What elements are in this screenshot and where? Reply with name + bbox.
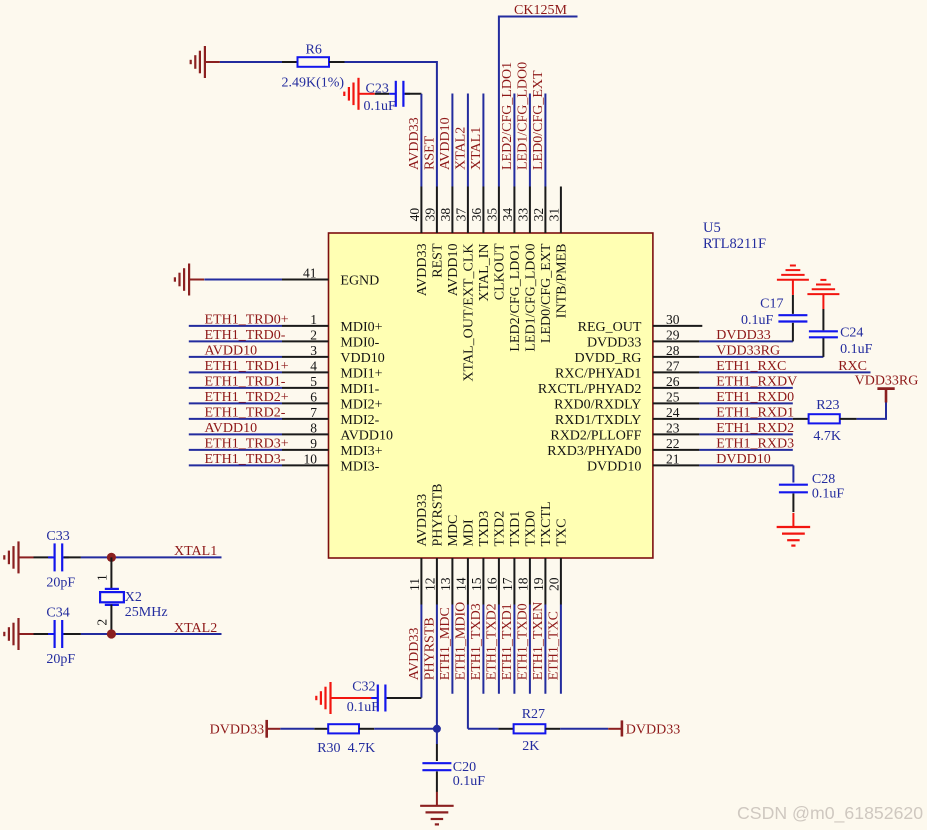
- net label AVDD33: [407, 628, 422, 681]
- pin 31 number: [546, 208, 561, 222]
- svg-text:TXD3: TXD3: [477, 511, 492, 547]
- pin 14 lead (bottom): [467, 558, 469, 605]
- X2 designator: [125, 590, 142, 605]
- C23 designator: [366, 82, 389, 97]
- R6 value 2.49K(1%): [282, 75, 345, 90]
- net label AVDD33: [407, 117, 422, 170]
- svg-text:ETH1_TRD2-: ETH1_TRD2-: [205, 406, 286, 421]
- svg-text:C33: C33: [46, 529, 69, 544]
- net label ETH1_TRD0-: [205, 328, 286, 343]
- R6 right lead: [329, 61, 345, 63]
- pin 18 number: [515, 577, 530, 591]
- svg-text:ETH1_RXDV: ETH1_RXDV: [716, 375, 797, 390]
- wire net ETH1_RXD3: [699, 449, 792, 451]
- ground (earth) at R6: [191, 46, 220, 78]
- pin 28 lead (right): [653, 356, 700, 358]
- C34 right lead: [64, 633, 81, 635]
- svg-text:ETH1_TXD0: ETH1_TXD0: [516, 603, 531, 680]
- net label AVDD10: [205, 421, 258, 436]
- R23 left lead: [793, 418, 809, 420]
- svg-text:28: 28: [666, 343, 680, 358]
- C34 designator: [46, 606, 69, 621]
- svg-text:21: 21: [666, 452, 680, 467]
- resistor R6: [298, 57, 330, 67]
- ground (earth) at EGND: [175, 264, 204, 296]
- svg-text:AVDD10: AVDD10: [205, 421, 258, 436]
- svg-text:AVDD33: AVDD33: [407, 628, 422, 681]
- wire junction down to C20: [436, 729, 438, 744]
- wire net ETH1_TRD2-: [189, 418, 282, 420]
- svg-text:AVDD10: AVDD10: [446, 244, 461, 297]
- svg-text:X2: X2: [125, 590, 142, 605]
- wire XTAL2 net: [81, 633, 222, 635]
- pin 21 lead (right): [653, 464, 700, 466]
- X2 value 25MHz: [125, 605, 168, 620]
- svg-text:AVDD10: AVDD10: [438, 117, 453, 170]
- net label DVDD10: [716, 452, 770, 467]
- svg-text:LED2/CFG_LDO1: LED2/CFG_LDO1: [508, 244, 523, 352]
- svg-text:LED1/CFG_LDO0: LED1/CFG_LDO0: [516, 62, 531, 170]
- pin 40 lead (top): [420, 187, 422, 234]
- wire DVDD33 to R30: [280, 728, 314, 730]
- svg-text:XTAL2: XTAL2: [454, 127, 469, 170]
- pin 35 number: [484, 208, 499, 222]
- pin 34 name LED2/CFG_LDO1: [508, 244, 523, 352]
- wire net ETH1_TRD3-: [189, 464, 282, 466]
- wire (net stub): [513, 94, 515, 187]
- pin 3 name VDD10: [340, 351, 384, 366]
- svg-text:ETH1_MDIO: ETH1_MDIO: [454, 602, 469, 681]
- svg-text:11: 11: [407, 578, 422, 591]
- net label ETH1_TRD2-: [205, 406, 286, 421]
- svg-text:14: 14: [453, 577, 468, 591]
- svg-text:DVDD33: DVDD33: [626, 722, 680, 737]
- svg-text:MDI3+: MDI3+: [340, 444, 382, 459]
- X2 pin 1 number: [94, 574, 109, 581]
- svg-text:XTAL2: XTAL2: [174, 621, 217, 636]
- svg-text:LED0/CFG_EXT: LED0/CFG_EXT: [531, 70, 546, 170]
- pin 20 lead (bottom): [560, 558, 562, 605]
- wire net ETH1_TRD1+: [189, 371, 282, 373]
- svg-text:DVDD10: DVDD10: [587, 459, 641, 474]
- wire net DVDD10: [699, 464, 793, 466]
- U5 value RTL8211F: [703, 236, 766, 252]
- C20 bottom lead: [436, 771, 438, 792]
- svg-text:TXD0: TXD0: [524, 511, 539, 547]
- pin 18 name TXD0: [524, 511, 539, 547]
- C32 designator: [352, 680, 375, 695]
- pin 1 lead (left): [282, 325, 329, 327]
- net label ETH1_TXD3: [469, 603, 484, 680]
- svg-text:DVDD10: DVDD10: [716, 452, 770, 467]
- watermark CSDN: [737, 803, 923, 824]
- pin 38 name AVDD10: [446, 244, 461, 297]
- wire net ETH1_TXD2: [498, 605, 500, 694]
- svg-text:39: 39: [422, 208, 437, 222]
- svg-text:33: 33: [515, 208, 530, 222]
- pin 11 name AVDD33: [415, 494, 430, 547]
- pin 19 name TXCTL: [539, 501, 554, 546]
- net label XTAL2: [174, 621, 217, 636]
- wire net ETH1_TXD1: [513, 605, 515, 694]
- net label LED1/CFG_LDO0: [516, 62, 531, 170]
- svg-text:DVDD33: DVDD33: [587, 335, 641, 350]
- pin 20 name TXC: [555, 519, 570, 547]
- pin 40 name AVDD33: [415, 244, 430, 297]
- svg-text:37: 37: [453, 208, 468, 222]
- pin 7 number: [310, 405, 317, 420]
- pin 31 name INTB/PMEB: [555, 244, 570, 319]
- C28 bottom lead: [792, 494, 794, 513]
- wire ground to C23: [374, 93, 390, 95]
- svg-text:RXCTL/PHYAD2: RXCTL/PHYAD2: [538, 382, 641, 397]
- svg-text:ETH1_MDC: ETH1_MDC: [438, 607, 453, 680]
- svg-text:17: 17: [500, 577, 515, 591]
- pin 7 lead (left): [282, 418, 329, 420]
- svg-text:ETH1_TXD3: ETH1_TXD3: [469, 603, 484, 680]
- pin 23 lead (right): [653, 433, 700, 435]
- svg-text:EGND: EGND: [340, 273, 379, 288]
- net label AVDD10: [438, 117, 453, 170]
- svg-text:8: 8: [310, 421, 317, 436]
- svg-text:CLKOUT: CLKOUT: [493, 243, 508, 300]
- wire net ETH1_TXC: [560, 605, 562, 694]
- svg-text:3: 3: [310, 343, 317, 358]
- wire net ETH1_RXDV: [699, 387, 792, 389]
- pin 37 number: [453, 208, 468, 222]
- C23 value 0.1uF: [364, 99, 397, 114]
- pin 8 name AVDD10: [340, 428, 393, 443]
- svg-text:9: 9: [310, 436, 317, 451]
- R30 left lead: [314, 728, 328, 730]
- power label VDD33RG: [855, 374, 919, 389]
- pin 28 number: [666, 343, 680, 358]
- power label DVDD33 left: [210, 722, 264, 737]
- net label ETH1_TRD1+: [205, 359, 289, 374]
- pin 17 lead (bottom): [513, 558, 515, 605]
- svg-text:38: 38: [438, 208, 453, 222]
- R6 left lead: [282, 61, 298, 63]
- svg-text:0.1uF: 0.1uF: [364, 99, 397, 114]
- pin 23 name RXD2/PLLOFF: [550, 428, 641, 443]
- capacitor C34: [48, 620, 69, 648]
- svg-text:0.1uF: 0.1uF: [741, 313, 774, 328]
- X2 pin 1 lead: [110, 557, 112, 589]
- net label ETH1_TRD1-: [205, 375, 286, 390]
- svg-text:PHYRSTB: PHYRSTB: [431, 483, 446, 546]
- pin 38 number: [438, 208, 453, 222]
- wire R6 to pin 39: [345, 62, 437, 187]
- net label XTAL1: [469, 127, 484, 170]
- pin 8 lead (left): [282, 433, 329, 435]
- pin 39 name REST: [431, 243, 446, 278]
- pin 2 number: [310, 328, 317, 343]
- svg-text:XTAL1: XTAL1: [174, 544, 217, 559]
- svg-text:ETH1_TRD3-: ETH1_TRD3-: [205, 452, 286, 467]
- pin 10 lead (left): [282, 464, 329, 466]
- C17 top lead: [792, 295, 794, 314]
- svg-text:0.1uF: 0.1uF: [347, 700, 380, 715]
- svg-text:31: 31: [546, 208, 561, 222]
- junction XTAL2: [107, 629, 116, 638]
- net label PHYRSTB: [423, 617, 438, 680]
- C33 left lead: [34, 556, 53, 558]
- C32 right lead: [387, 697, 421, 699]
- pin 13 name MDC: [446, 515, 461, 547]
- junction XTAL1: [107, 553, 116, 562]
- svg-text:2: 2: [94, 619, 109, 626]
- pin 27 name RXC/PHYAD1: [555, 366, 641, 381]
- wire net AVDD10: [189, 356, 282, 358]
- pin 32 number: [531, 208, 546, 222]
- pin 31 lead (top): [560, 187, 562, 234]
- pin 34 number: [500, 208, 515, 222]
- pin 37 name XTAL_OUT/EXT_CLK: [462, 244, 477, 382]
- pin 24 lead (right): [653, 418, 700, 420]
- resistor R27: [514, 724, 546, 733]
- svg-text:DVDD33: DVDD33: [210, 722, 264, 737]
- pin 27 lead (right): [653, 371, 700, 373]
- capacitor C23: [389, 81, 410, 107]
- svg-text:7: 7: [310, 405, 317, 420]
- svg-text:15: 15: [469, 577, 484, 591]
- wire net ETH1_TRD0+: [189, 325, 282, 327]
- net label ETH1_TXEN: [531, 602, 546, 681]
- svg-text:19: 19: [531, 577, 546, 591]
- pin 16 number: [484, 577, 499, 591]
- wire XTAL1 net: [81, 556, 222, 558]
- pin 24 number: [666, 405, 680, 420]
- wire net ETH1_TXD0: [529, 605, 531, 694]
- R30 value 4.7K: [348, 741, 376, 756]
- pin 5 number: [310, 374, 317, 389]
- net label XTAL1: [174, 544, 217, 559]
- svg-text:DVDD_RG: DVDD_RG: [575, 351, 642, 366]
- svg-text:40: 40: [407, 208, 422, 222]
- net label ETH1_TRD2+: [205, 390, 289, 405]
- C17 designator: [760, 296, 783, 311]
- wire R30 to junction: [374, 728, 437, 730]
- pin 33 lead (top): [529, 187, 531, 234]
- pin 32 lead (top): [544, 187, 546, 234]
- pin 1 name MDI0+: [340, 320, 382, 335]
- svg-text:PHYRSTB: PHYRSTB: [423, 617, 438, 680]
- pin 12 name PHYRSTB: [431, 483, 446, 546]
- pin 17 number: [500, 577, 515, 591]
- svg-text:0.1uF: 0.1uF: [812, 487, 845, 502]
- svg-text:TXCTL: TXCTL: [539, 501, 554, 546]
- pin 7 name MDI2-: [340, 413, 379, 428]
- pin 21 name DVDD10: [587, 459, 641, 474]
- junction at PHYRSTB/C20: [433, 725, 441, 733]
- svg-text:XTAL1: XTAL1: [469, 127, 484, 170]
- pin 30 lead (right): [653, 325, 702, 327]
- svg-text:ETH1_RXC: ETH1_RXC: [716, 359, 786, 374]
- svg-text:20: 20: [546, 577, 561, 591]
- net label ETH1_RXD1: [716, 406, 794, 421]
- wire net ETH1_TRD0-: [189, 340, 282, 342]
- wire EGND to ground: [204, 279, 282, 281]
- power label DVDD33 right: [626, 722, 680, 737]
- capacitor C33: [48, 543, 69, 571]
- svg-text:CK125M: CK125M: [514, 3, 567, 18]
- svg-text:LED2/CFG_LDO1: LED2/CFG_LDO1: [500, 62, 515, 170]
- pin 26 name RXCTL/PHYAD2: [538, 382, 641, 397]
- pin 2 name MDI0-: [340, 335, 379, 350]
- power port DVDD33 right: [608, 720, 622, 736]
- power port VDD33RG: [877, 389, 894, 403]
- svg-text:25: 25: [666, 390, 680, 405]
- svg-text:ETH1_TRD1-: ETH1_TRD1-: [205, 375, 286, 390]
- capacitor C28: [779, 485, 808, 493]
- svg-text:34: 34: [500, 208, 515, 222]
- svg-text:ETH1_TXD2: ETH1_TXD2: [485, 603, 500, 680]
- svg-text:1: 1: [310, 312, 317, 327]
- pin 28 name DVDD_RG: [575, 351, 642, 366]
- svg-text:36: 36: [469, 208, 484, 222]
- net label ETH1_TXD1: [500, 603, 515, 680]
- pin 27 number: [666, 359, 680, 374]
- pin 36 name XTAL_IN: [477, 244, 492, 302]
- svg-text:C32: C32: [352, 680, 375, 695]
- svg-text:ETH1_RXD0: ETH1_RXD0: [716, 390, 794, 405]
- pin 33 name LED1/CFG_LDO0: [524, 244, 539, 352]
- pin 41 lead EGND: [282, 279, 329, 281]
- pin 2 lead (left): [282, 340, 329, 342]
- pin 32 name LED0/CFG_EXT: [539, 243, 554, 343]
- C28 designator: [812, 472, 835, 487]
- svg-text:RXD3/PHYAD0: RXD3/PHYAD0: [547, 444, 641, 459]
- svg-text:TXD1: TXD1: [508, 511, 523, 547]
- svg-text:C23: C23: [366, 82, 389, 97]
- R6 designator: [306, 42, 322, 57]
- svg-text:2K: 2K: [522, 739, 539, 754]
- R23 designator: [816, 398, 839, 413]
- wire R27 to DVDD33: [560, 728, 608, 730]
- svg-text:0.1uF: 0.1uF: [453, 774, 486, 789]
- net label ETH1_TRD3-: [205, 452, 286, 467]
- IC U5 RTL8211F body: [329, 233, 653, 558]
- svg-text:ETH1_TRD1+: ETH1_TRD1+: [205, 359, 289, 374]
- pin 38 lead (top): [451, 187, 453, 234]
- wire (net stub): [451, 94, 453, 187]
- pin 13 lead (bottom): [451, 558, 453, 605]
- pin 24 name RXD1/TXDLY: [555, 413, 641, 428]
- svg-text:10: 10: [304, 452, 318, 467]
- svg-text:ETH1_RXD1: ETH1_RXD1: [716, 406, 794, 421]
- svg-text:AVDD10: AVDD10: [205, 344, 258, 359]
- power port DVDD33 left: [267, 720, 281, 738]
- svg-text:LED0/CFG_EXT: LED0/CFG_EXT: [539, 243, 554, 343]
- svg-text:MDI2+: MDI2+: [340, 397, 382, 412]
- pin 36 number: [469, 208, 484, 222]
- capacitor C20: [422, 763, 451, 770]
- pin 25 number: [666, 390, 680, 405]
- U5 designator: [703, 220, 721, 236]
- inverted ground at C17: [777, 266, 809, 280]
- svg-text:R6: R6: [306, 42, 322, 57]
- C34 value 20pF: [46, 652, 75, 667]
- net label RSET: [423, 135, 438, 170]
- net label ETH1_RXD3: [716, 437, 794, 452]
- pin 26 number: [666, 374, 680, 389]
- svg-text:ETH1_RXD3: ETH1_RXD3: [716, 437, 794, 452]
- net label ETH1_TXD0: [516, 603, 531, 680]
- C28 value 0.1uF: [812, 487, 845, 502]
- ground at C28: [777, 513, 811, 546]
- pin 36 lead (top): [482, 187, 484, 234]
- svg-text:35: 35: [484, 208, 499, 222]
- wire net PHYRSTB: [436, 605, 438, 729]
- C33 designator: [46, 529, 69, 544]
- pin 15 number: [469, 577, 484, 591]
- pin 29 lead (right): [653, 340, 700, 342]
- svg-text:R30: R30: [317, 741, 340, 756]
- C24 designator: [840, 326, 863, 341]
- wire ground to C32: [346, 697, 376, 699]
- svg-text:C24: C24: [840, 326, 863, 341]
- wire net ETH1_TRD2+: [189, 402, 282, 404]
- net label ETH1_MDC: [438, 607, 453, 680]
- svg-text:MDI3-: MDI3-: [340, 459, 379, 474]
- net label ETH1_MDIO: [454, 602, 469, 681]
- pin 17 name TXD1: [508, 511, 523, 547]
- net label ETH1_RXC: [716, 359, 786, 374]
- wire (net stub): [544, 94, 546, 187]
- net label ETH1_RXD0: [716, 390, 794, 405]
- svg-text:VDD10: VDD10: [340, 351, 384, 366]
- C24 value 0.1uF: [840, 342, 873, 357]
- pin 5 name MDI1-: [340, 382, 379, 397]
- svg-text:MDI1+: MDI1+: [340, 366, 382, 381]
- svg-text:4: 4: [310, 359, 317, 374]
- pin 10 number: [304, 452, 318, 467]
- svg-text:32: 32: [531, 208, 546, 222]
- svg-text:ETH1_TXD1: ETH1_TXD1: [500, 603, 515, 680]
- pin 29 name DVDD33: [587, 335, 641, 350]
- wire net ETH1_RXD1: [699, 418, 792, 420]
- pin 34 lead (top): [513, 187, 515, 234]
- pin 30 number: [666, 312, 680, 327]
- svg-text:XTAL_IN: XTAL_IN: [477, 244, 492, 302]
- svg-text:RXD0/RXDLY: RXD0/RXDLY: [554, 397, 641, 412]
- wire net ETH1_RXD0: [699, 402, 792, 404]
- pin 25 lead (right): [653, 402, 700, 404]
- net label LED0/CFG_EXT: [531, 70, 546, 170]
- wire pin 21 down to C28: [792, 465, 794, 482]
- svg-text:18: 18: [515, 577, 530, 591]
- svg-text:ETH1_TRD2+: ETH1_TRD2+: [205, 390, 289, 405]
- pin 14 name MDI: [462, 519, 477, 547]
- R27 designator: [522, 707, 545, 722]
- pin 5 lead (left): [282, 387, 329, 389]
- wire net ETH1_TRD3+: [189, 449, 282, 451]
- C34 left lead: [34, 633, 53, 635]
- wire net AVDD33: [420, 605, 422, 698]
- svg-text:DVDD33: DVDD33: [716, 328, 770, 343]
- net label XTAL2: [454, 127, 469, 170]
- svg-text:XTAL_OUT/EXT_CLK: XTAL_OUT/EXT_CLK: [462, 244, 477, 382]
- R27 value 2K: [522, 739, 539, 754]
- svg-text:REST: REST: [431, 243, 446, 278]
- C17 value 0.1uF: [741, 313, 774, 328]
- ground at C23: [344, 78, 373, 110]
- wire ground to R6: [220, 61, 282, 63]
- svg-text:ETH1_TXEN: ETH1_TXEN: [531, 602, 546, 681]
- svg-text:4.7K: 4.7K: [813, 429, 841, 444]
- R27 left lead: [498, 728, 513, 730]
- svg-text:R27: R27: [522, 707, 545, 722]
